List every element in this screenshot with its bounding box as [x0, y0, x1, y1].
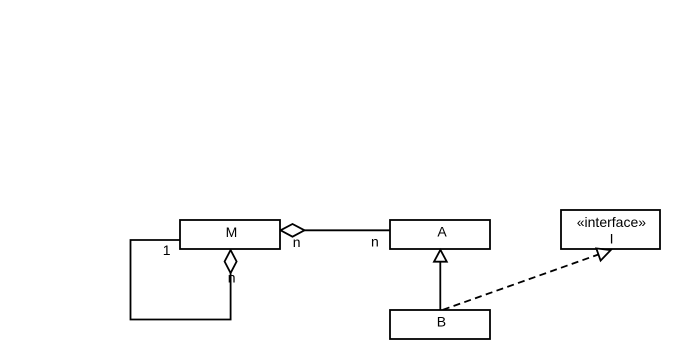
wire: association M to A [304, 229, 391, 231]
svg-text:n: n [293, 234, 301, 250]
svg-text:«interface»: «interface» [577, 214, 646, 230]
svg-text:1: 1 [163, 242, 171, 258]
svg-text:B: B [437, 314, 446, 330]
generalization hollow triangle at A [434, 250, 447, 262]
svg-text:I: I [610, 231, 614, 247]
svg-text:n: n [228, 270, 236, 286]
svg-text:n: n [371, 234, 379, 250]
class box A [390, 220, 490, 249]
svg-text:M: M [226, 224, 238, 240]
wire: self-association loop of M [131, 240, 231, 320]
wire: realization dashed line B to I [443, 255, 599, 310]
class box M [180, 220, 280, 249]
class box B [390, 310, 490, 339]
interface box I [561, 210, 660, 249]
svg-text:A: A [437, 224, 447, 240]
realization hollow triangle at I [596, 248, 610, 260]
wire: generalization line B to A [439, 262, 441, 311]
aggregation diamond (self-association) below M [225, 250, 237, 273]
aggregation diamond at right of M [281, 224, 305, 237]
